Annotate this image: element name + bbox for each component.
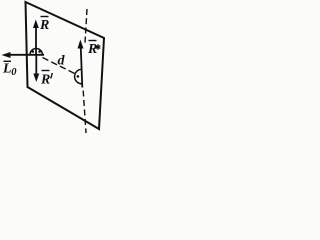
svg-text:L: L	[2, 62, 12, 77]
label R' with overline and prime	[40, 71, 52, 88]
distance line d (dashed) from junction A to base of R*	[43, 58, 77, 75]
vector R' (downward)	[33, 55, 39, 83]
label R* with overline and star	[87, 41, 100, 58]
line of action of R* (dashed, lower segment)	[83, 91, 86, 134]
line of action of R* (dashed, upper segment)	[85, 9, 87, 43]
svg-text:d: d	[58, 54, 66, 69]
vector R* (upward at right)	[78, 40, 84, 88]
plane (parallelogram outline)	[26, 2, 105, 129]
label R (top) with overline	[39, 17, 49, 34]
svg-text:R: R	[87, 42, 97, 57]
svg-text:R: R	[40, 73, 50, 88]
vector L0 (leftward)	[2, 52, 45, 58]
right-angle arc (right) at junction A with dot	[36, 49, 42, 55]
svg-text:R: R	[39, 18, 49, 33]
angle arc (semicircle) at base of R* with dot	[75, 69, 82, 84]
svg-text:0: 0	[11, 67, 17, 78]
vector R (upward)	[33, 20, 39, 55]
label L0 with overline and subscript	[2, 61, 17, 78]
right-angle arc (left) at junction A with dot	[30, 49, 36, 55]
